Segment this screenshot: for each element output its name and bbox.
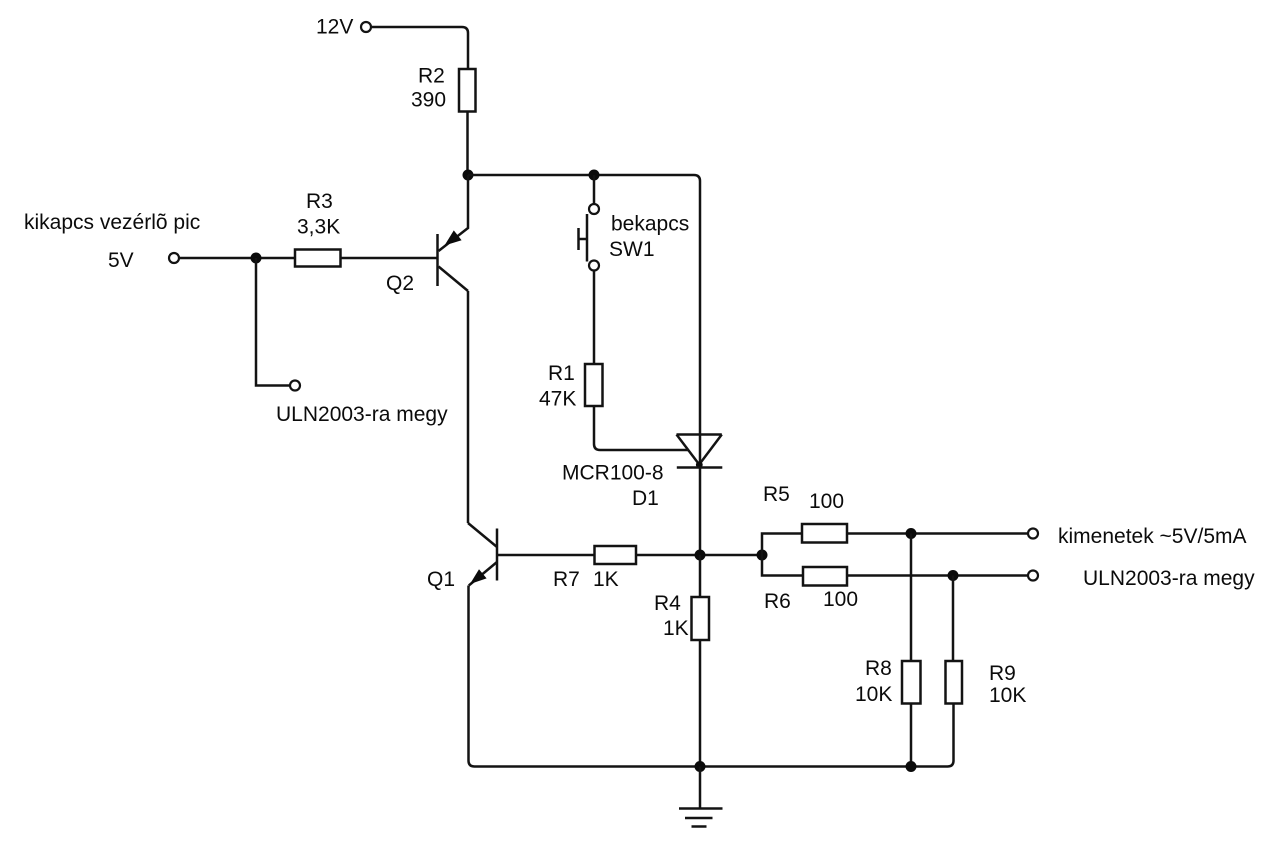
svg-text:R2: R2 bbox=[418, 65, 445, 88]
svg-text:R6: R6 bbox=[764, 590, 791, 613]
wire R1 to SCR gate bbox=[594, 406, 688, 450]
wire R5 tap down to R8 bbox=[910, 534, 913, 662]
resistor R8 bbox=[902, 661, 921, 704]
thyristor D1 bbox=[677, 435, 723, 469]
svg-text:47K: 47K bbox=[539, 388, 576, 411]
svg-text:10K: 10K bbox=[855, 683, 892, 706]
svg-text:SW1: SW1 bbox=[609, 238, 655, 261]
resistor R6 bbox=[803, 567, 847, 586]
resistor R7 bbox=[595, 546, 637, 564]
resistor R9 bbox=[946, 661, 963, 704]
svg-text:R9: R9 bbox=[989, 662, 1016, 685]
node ground rail R4 junction bbox=[695, 761, 706, 772]
node R8 tap junction bbox=[906, 528, 917, 539]
svg-text:1K: 1K bbox=[593, 568, 619, 591]
node ground rail R8 junction bbox=[906, 761, 917, 772]
svg-text:R1: R1 bbox=[548, 362, 575, 385]
terminal output 1 bbox=[1028, 529, 1038, 539]
node base branch junction bbox=[251, 253, 262, 264]
node top rail switch junction bbox=[589, 170, 600, 181]
wire R6 to output 2 bbox=[847, 574, 1028, 577]
svg-text:Q1: Q1 bbox=[427, 568, 455, 591]
svg-text:bekapcs: bekapcs bbox=[611, 213, 689, 236]
resistor R3 bbox=[295, 250, 341, 267]
wire 5V to R3 bbox=[179, 257, 295, 260]
wire branch down from node bbox=[256, 258, 290, 386]
ground bbox=[679, 767, 723, 827]
wire Q1 base to R7 bbox=[497, 554, 595, 557]
svg-text:ULN2003-ra megy: ULN2003-ra megy bbox=[1083, 567, 1255, 590]
wire R8 bottom to ground rail bbox=[910, 704, 913, 767]
wire R7 to branch node bbox=[636, 554, 762, 557]
node R9 tap junction bbox=[948, 570, 959, 581]
node top rail left junction bbox=[463, 170, 474, 181]
wire branch down to R6 bbox=[762, 555, 803, 576]
svg-text:R4: R4 bbox=[654, 592, 681, 615]
node R7-D1 junction bbox=[695, 550, 706, 561]
switch SW1 bbox=[579, 175, 600, 271]
wire Q2 collector down to Q1 collector bbox=[467, 291, 470, 523]
resistor R5 bbox=[802, 524, 847, 543]
wire D1 cathode down bbox=[699, 468, 702, 556]
wire R5 to output 1 bbox=[847, 532, 1028, 535]
node R5 R6 branch junction bbox=[757, 550, 768, 561]
svg-text:5V: 5V bbox=[108, 249, 134, 272]
resistor R1 bbox=[585, 364, 603, 406]
svg-text:D1: D1 bbox=[632, 487, 659, 510]
wire R9 tap down to R9 bbox=[952, 576, 955, 662]
svg-text:100: 100 bbox=[823, 588, 858, 611]
wire ground rail from Q1 emitter to R9 bbox=[469, 586, 954, 767]
svg-text:R7: R7 bbox=[553, 568, 580, 591]
svg-text:kimenetek ~5V/5mA: kimenetek ~5V/5mA bbox=[1058, 525, 1247, 548]
svg-text:390: 390 bbox=[411, 89, 446, 112]
transistor Q2 bbox=[438, 175, 469, 291]
resistor R4 bbox=[692, 597, 710, 640]
svg-text:kikapcs vezérlõ pic: kikapcs vezérlõ pic bbox=[24, 211, 200, 234]
svg-text:R3: R3 bbox=[306, 190, 333, 213]
wire top rail horizontal bbox=[468, 175, 700, 465]
wire R2 bottom to top rail junction bbox=[466, 112, 469, 176]
terminal 12V bbox=[361, 22, 371, 32]
svg-text:Q2: Q2 bbox=[386, 272, 414, 295]
terminal output 2 bbox=[1028, 571, 1038, 581]
svg-text:3,3K: 3,3K bbox=[297, 216, 340, 239]
svg-text:1K: 1K bbox=[663, 617, 689, 640]
terminal 5V bbox=[169, 253, 179, 263]
svg-text:R5: R5 bbox=[763, 483, 790, 506]
svg-text:ULN2003-ra megy: ULN2003-ra megy bbox=[276, 403, 448, 426]
wire D1 node to R4 to ground rail bbox=[699, 555, 702, 767]
wire branch up to R5 bbox=[762, 534, 802, 556]
resistor R2 bbox=[459, 69, 476, 112]
wire R3 to Q2 base bbox=[341, 257, 438, 260]
transistor Q1 bbox=[468, 523, 497, 586]
svg-text:R8: R8 bbox=[865, 657, 892, 680]
wire 12V to R2 top bbox=[371, 27, 468, 69]
wire switch to R1 bbox=[593, 271, 596, 365]
svg-text:100: 100 bbox=[809, 490, 844, 513]
svg-text:10K: 10K bbox=[989, 684, 1026, 707]
svg-text:12V: 12V bbox=[316, 16, 353, 39]
terminal ULN2003 left bbox=[290, 381, 300, 391]
svg-text:MCR100-8: MCR100-8 bbox=[562, 462, 664, 485]
